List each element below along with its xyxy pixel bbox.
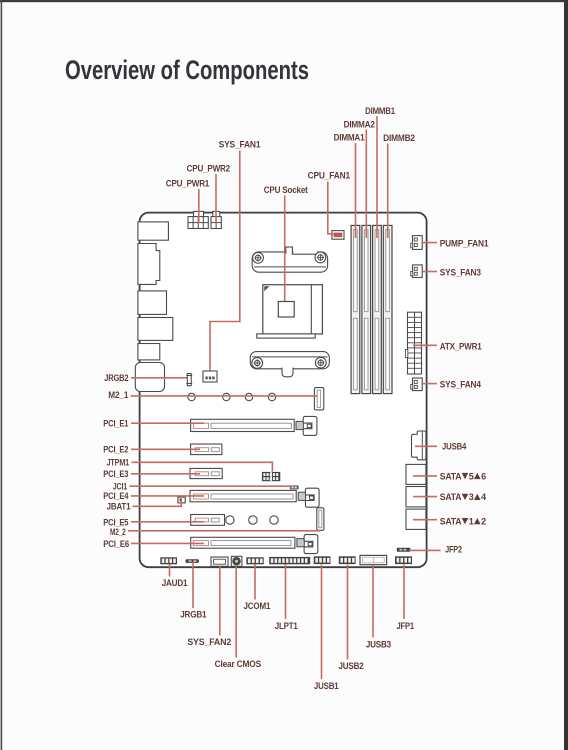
connector JBAT1 bbox=[178, 497, 185, 503]
bottom connector JLPT1 bbox=[269, 557, 310, 564]
io block F audio bbox=[135, 363, 164, 392]
bottom connector Clear CMOS button bbox=[231, 556, 242, 566]
leader SATA12 bbox=[413, 519, 437, 521]
svg-text:JFP2: JFP2 bbox=[445, 544, 462, 554]
svg-text:M2_1: M2_1 bbox=[108, 390, 128, 400]
leader PCI_E6 bbox=[131, 542, 204, 544]
svg-text:PCI_E6: PCI_E6 bbox=[103, 539, 129, 549]
svg-text:ATX_PWR1: ATX_PWR1 bbox=[440, 341, 482, 351]
leader JUSB1 bbox=[321, 565, 323, 680]
leader PCI_E4 bbox=[131, 495, 204, 497]
connector SYS_FAN4 bbox=[411, 378, 423, 391]
bottom connector SYS_FAN2 bbox=[211, 557, 228, 566]
leader PUMP_FAN1 bbox=[422, 242, 437, 244]
PCI_E3 slot bbox=[190, 468, 222, 478]
leader Clear CMOS bbox=[235, 566, 237, 658]
connector SATA56 bbox=[406, 464, 426, 484]
svg-text:5: 5 bbox=[469, 471, 474, 481]
bottom connector JFP1 bbox=[395, 556, 412, 564]
svg-text:4: 4 bbox=[481, 492, 486, 502]
io block B bbox=[138, 244, 160, 285]
DIMM slot DIMMA1 bbox=[351, 225, 360, 393]
svg-text:JUSB3: JUSB3 bbox=[366, 639, 391, 649]
leader SYS_FAN3 bbox=[422, 271, 437, 273]
leader ATX_PWR1 bbox=[413, 344, 437, 346]
leader DIMMA1 bbox=[355, 143, 357, 238]
connector CPU_PWR2 4-pin bbox=[211, 217, 221, 229]
page right border bar bbox=[564, 0, 568, 750]
svg-text:JAUD1: JAUD1 bbox=[162, 578, 188, 588]
leader SATA34 bbox=[413, 496, 437, 498]
PCI_E1 slot bbox=[191, 419, 295, 431]
PCI_E1 latch bbox=[296, 416, 317, 435]
leader SYS_FAN4 bbox=[422, 383, 437, 385]
M2_1 slot bbox=[314, 388, 323, 410]
connector CPU_PWR1 8-pin bbox=[188, 217, 208, 229]
svg-text:JBAT1: JBAT1 bbox=[107, 502, 131, 512]
leader JCI1 bbox=[130, 485, 293, 487]
svg-text:JTPM1: JTPM1 bbox=[107, 457, 130, 467]
leader CPU_PWR2 bbox=[215, 174, 217, 223]
svg-text:JCOM1: JCOM1 bbox=[244, 601, 271, 611]
io block E bbox=[138, 344, 160, 360]
leader PCI_E5 bbox=[131, 521, 204, 523]
connector CPU_PWR2 tab bbox=[213, 211, 220, 218]
svg-text:SYS_FAN4: SYS_FAN4 bbox=[440, 379, 481, 389]
PCI_E5 slot bbox=[191, 515, 225, 526]
connector JUSB4 bbox=[412, 431, 426, 460]
bottom connector JRGB1 bbox=[186, 559, 199, 563]
cpu bottom bracket bbox=[250, 352, 329, 377]
PCI_E6 latch bbox=[297, 535, 318, 554]
bottom connector JCOM1 bbox=[246, 557, 263, 564]
connector SYS_FAN1 target bbox=[203, 371, 217, 382]
io block C bbox=[138, 291, 167, 315]
leader SYS_FAN1 bbox=[210, 151, 240, 371]
leader DIMMB2 bbox=[387, 144, 389, 239]
leader DIMMA2 bbox=[365, 130, 367, 239]
svg-text:PCI_E2: PCI_E2 bbox=[103, 445, 128, 455]
cpu socket bottom bar bbox=[257, 334, 315, 338]
svg-text:DIMMA2: DIMMA2 bbox=[344, 119, 375, 129]
svg-text:CPU_PWR1: CPU_PWR1 bbox=[166, 179, 210, 189]
svg-text:Overview of Components: Overview of Components bbox=[65, 55, 309, 85]
DIMM slot DIMMA2 bbox=[362, 225, 371, 393]
leader SYS_FAN2 bbox=[219, 566, 221, 636]
PCI_E4 slot bbox=[190, 490, 296, 501]
DIMM slot DIMMB1 bbox=[373, 225, 382, 393]
svg-text:SATA: SATA bbox=[440, 492, 462, 502]
DIMM slot DIMMB2 bbox=[383, 225, 392, 393]
leader CPU Socket bbox=[284, 196, 286, 302]
leader PCI_E2 bbox=[131, 448, 200, 450]
connector JRGB2 bbox=[186, 374, 192, 386]
svg-text:JUSB2: JUSB2 bbox=[338, 661, 363, 671]
svg-text:DIMMB1: DIMMB1 bbox=[365, 106, 395, 116]
page left border line bbox=[1, 0, 3, 750]
connector SATA12 bbox=[406, 509, 426, 529]
connector JFP2 bbox=[397, 548, 411, 552]
svg-text:M2_2: M2_2 bbox=[110, 527, 126, 537]
leader JFP1 bbox=[403, 565, 405, 620]
leader JUSB3 bbox=[372, 566, 374, 638]
svg-text:SYS_FAN3: SYS_FAN3 bbox=[440, 268, 481, 278]
svg-text:JFP1: JFP1 bbox=[396, 621, 414, 631]
svg-text:JLPT1: JLPT1 bbox=[275, 621, 298, 631]
leader JTPM1 bbox=[132, 462, 273, 471]
leader JRGB1 bbox=[192, 562, 194, 608]
leader JCOM1 bbox=[254, 565, 256, 600]
connector SYS_FAN3 bbox=[411, 265, 423, 278]
connector PUMP_FAN1 bbox=[411, 236, 423, 250]
svg-text:CPU_PWR2: CPU_PWR2 bbox=[187, 163, 231, 173]
leader JUSB2 bbox=[347, 565, 349, 660]
board outline bbox=[140, 213, 427, 568]
leader JFP2 bbox=[409, 549, 441, 551]
bottom connector JAUD1 bbox=[160, 557, 177, 564]
leader JBAT1 bbox=[133, 502, 182, 507]
svg-text:SYS_FAN1: SYS_FAN1 bbox=[219, 140, 261, 150]
leader PCI_E3 bbox=[131, 473, 200, 475]
svg-text:PCI_E5: PCI_E5 bbox=[103, 517, 128, 527]
connector CPU_PWR1 tab bbox=[194, 211, 204, 218]
svg-text:6: 6 bbox=[481, 471, 486, 481]
connector JCI1 bbox=[290, 485, 299, 489]
leader PCI_E1 bbox=[131, 422, 204, 424]
M2_2 slot bbox=[317, 508, 324, 531]
connector JTPM1 bbox=[262, 472, 280, 481]
leader M2_2 bbox=[128, 530, 320, 532]
svg-text:CPU Socket: CPU Socket bbox=[264, 185, 308, 195]
svg-text:DIMMA1: DIMMA1 bbox=[334, 133, 365, 143]
svg-text:JCI1: JCI1 bbox=[113, 481, 127, 491]
leader DIMMB1 bbox=[376, 116, 378, 238]
io block D bbox=[138, 318, 173, 341]
svg-text:CPU_FAN1: CPU_FAN1 bbox=[308, 171, 350, 181]
page top border line bbox=[0, 0, 568, 2]
svg-text:JUSB4: JUSB4 bbox=[442, 441, 466, 451]
M2_1 standoff holes bbox=[188, 393, 276, 400]
bottom connector JUSB1 bbox=[314, 556, 331, 564]
svg-text:2: 2 bbox=[481, 516, 486, 526]
cpu socket bbox=[263, 285, 323, 334]
PCI_E2 slot bbox=[191, 444, 222, 455]
svg-text:3: 3 bbox=[469, 492, 474, 502]
leader JLPT1 bbox=[285, 565, 287, 620]
leader CPU_FAN1 bbox=[328, 182, 334, 234]
svg-text:PCI_E1: PCI_E1 bbox=[103, 418, 128, 428]
svg-text:Clear CMOS: Clear CMOS bbox=[215, 659, 262, 669]
leader JUSB4 bbox=[415, 445, 437, 447]
svg-text:DIMMB2: DIMMB2 bbox=[383, 133, 415, 143]
svg-text:JRGB1: JRGB1 bbox=[180, 609, 206, 619]
svg-text:PUMP_FAN1: PUMP_FAN1 bbox=[440, 238, 489, 248]
connector ATX_PWR1 bbox=[103, 106, 488, 691]
leader JAUD1 bbox=[169, 565, 171, 577]
cpu top bracket bbox=[252, 247, 327, 272]
svg-text:SYS_FAN2: SYS_FAN2 bbox=[187, 637, 231, 647]
connector SATA34 bbox=[406, 487, 426, 507]
io block A bbox=[138, 222, 169, 240]
svg-text:JUSB1: JUSB1 bbox=[314, 681, 339, 691]
leader JRGB2 bbox=[131, 377, 187, 379]
svg-text:1: 1 bbox=[469, 516, 474, 526]
PCI_E6 slot bbox=[191, 537, 295, 548]
svg-text:JRGB2: JRGB2 bbox=[104, 373, 128, 383]
svg-text:PCI_E3: PCI_E3 bbox=[103, 469, 128, 479]
PCI_E5 standoff holes bbox=[226, 516, 278, 524]
leader M2_1 bbox=[131, 395, 318, 397]
bottom connector JUSB3 bbox=[360, 555, 387, 564]
svg-text:SATA: SATA bbox=[440, 471, 462, 481]
leader CPU_PWR1 bbox=[198, 189, 200, 223]
svg-text:PCI_E4: PCI_E4 bbox=[103, 491, 128, 501]
connector CPU_FAN1 bbox=[332, 231, 344, 240]
bottom connector JUSB2 bbox=[339, 556, 356, 564]
PCI_E4 latch bbox=[298, 488, 319, 507]
svg-text:SATA: SATA bbox=[440, 516, 462, 526]
leader SATA56 bbox=[413, 475, 437, 477]
